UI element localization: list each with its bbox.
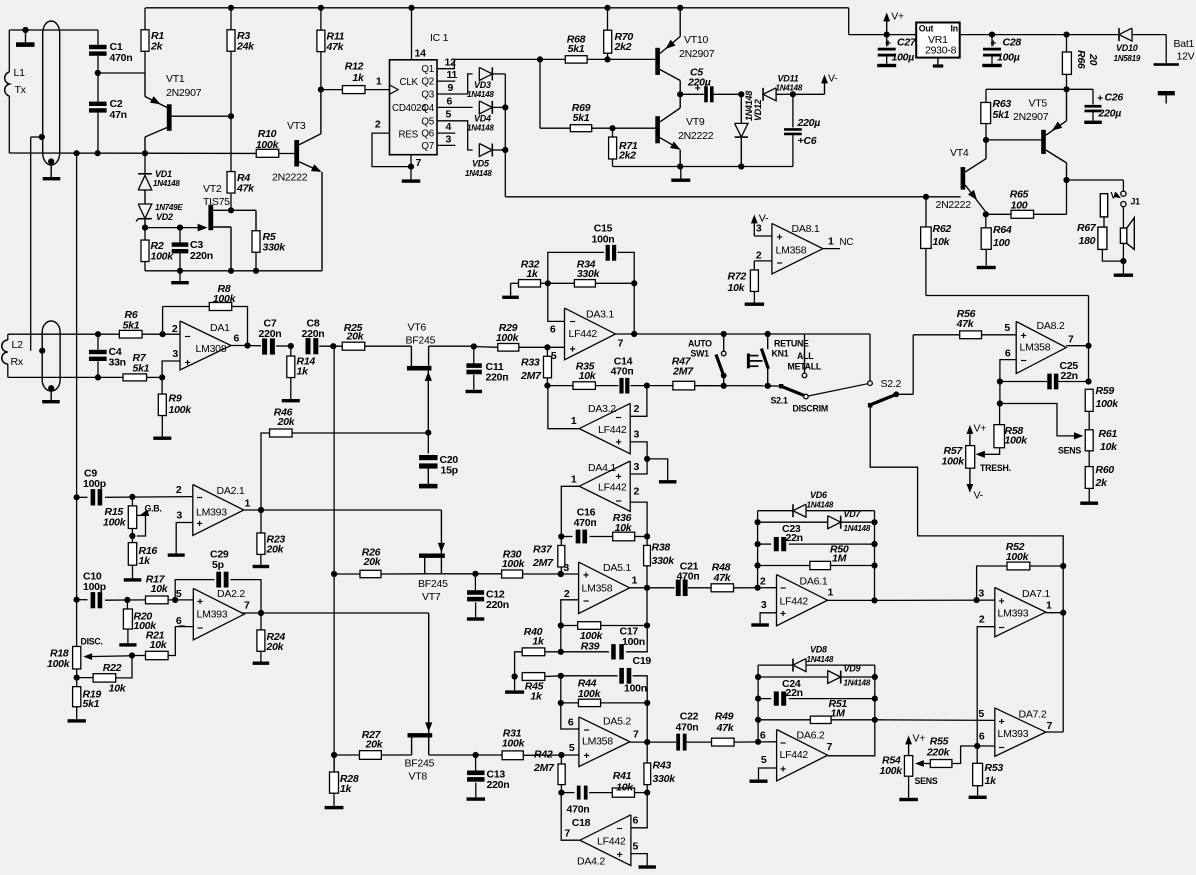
svg-text:2: 2 [760, 576, 766, 588]
svg-text:R42: R42 [534, 749, 553, 761]
wire [144, 51, 146, 73]
svg-text:NC: NC [840, 237, 854, 248]
wire [793, 93, 825, 95]
wire [97, 113, 99, 153]
wire pin6 [561, 703, 579, 729]
svg-text:+: + [999, 716, 1005, 728]
resistor R43 [644, 763, 651, 785]
svg-text:S2.1: S2.1 [771, 396, 788, 406]
capacitor C7 [262, 338, 267, 354]
wire bus x334 [333, 346, 335, 772]
wire [647, 587, 675, 589]
wire [647, 741, 676, 743]
wire [1046, 731, 1063, 733]
svg-text:R60: R60 [1096, 464, 1115, 476]
svg-text:Out: Out [919, 24, 934, 34]
V+ symbol R54 [908, 740, 910, 756]
capacitor C23 [774, 537, 779, 551]
op-amp DA3.1 [565, 308, 616, 360]
V- symbol DA8.1 [753, 217, 755, 225]
wire [365, 345, 412, 347]
wire [680, 93, 704, 95]
svg-text:DA8.2: DA8.2 [1037, 320, 1065, 332]
svg-text:5: 5 [176, 588, 182, 600]
wire osc ground rail [145, 270, 322, 272]
svg-text:5k1: 5k1 [568, 43, 585, 55]
wire [1122, 180, 1124, 191]
wire [986, 139, 1041, 141]
wire pin1 [561, 486, 579, 536]
wire [758, 510, 793, 512]
terminal bar C20 [427, 467, 429, 484]
wire [230, 51, 232, 171]
svg-text:SENS: SENS [915, 776, 938, 786]
resistor R35 [573, 382, 595, 390]
resistor R52 [1007, 562, 1030, 570]
svg-text:LM358: LM358 [582, 736, 613, 748]
wire [1066, 74, 1068, 89]
wire [145, 227, 204, 229]
V- symbol R57 [969, 468, 971, 489]
wire [548, 282, 575, 284]
junction R39 right [644, 622, 650, 628]
resistor R26 [360, 570, 381, 577]
capacitor C11 [466, 363, 481, 368]
wire [758, 698, 771, 700]
svg-text:2k: 2k [150, 41, 164, 53]
svg-text:2: 2 [564, 588, 570, 600]
potentiometer R61 [1085, 430, 1093, 451]
wire [519, 346, 565, 348]
voltage regulator VR1 2930-8 [916, 23, 960, 58]
junction shield Rx [39, 348, 45, 354]
svg-text:220k: 220k [926, 747, 951, 759]
svg-text:Q7: Q7 [421, 141, 434, 152]
wire [999, 404, 1001, 425]
wire [646, 537, 648, 546]
junction DA5.2 out [644, 739, 650, 745]
svg-text:VT9: VT9 [686, 116, 705, 128]
svg-text:+: + [990, 37, 996, 49]
svg-text:5k1: 5k1 [133, 363, 150, 375]
wire R62 to DA8.2 out [925, 248, 927, 295]
resistor R68 [565, 56, 587, 63]
svg-text:2N2907: 2N2907 [679, 48, 715, 60]
svg-text:+: + [780, 764, 786, 776]
wire net2 right bus [874, 665, 876, 756]
wire [792, 135, 794, 167]
wire [1000, 381, 1047, 383]
wire [982, 334, 1017, 336]
wire [1122, 243, 1124, 261]
wire pin6 [548, 283, 565, 321]
svg-text:47k: 47k [713, 572, 732, 584]
svg-text:7: 7 [633, 729, 639, 741]
ground R53 [977, 786, 979, 796]
svg-text:180: 180 [1079, 235, 1096, 247]
svg-text:1N4148: 1N4148 [153, 179, 180, 188]
ground R45 [514, 677, 516, 691]
capacitor C21 [676, 580, 681, 597]
wire pin2 [630, 502, 647, 536]
junction DA7 outs [1060, 610, 1066, 616]
resistor R17 [146, 596, 169, 604]
svg-text:−: − [777, 258, 783, 270]
diode VD4 [479, 101, 492, 114]
svg-text:Bat1: Bat1 [1174, 38, 1195, 50]
svg-text:5: 5 [978, 708, 984, 720]
svg-text:TRESH.: TRESH. [980, 463, 1011, 473]
svg-text:5: 5 [1004, 322, 1010, 334]
junction [95, 331, 101, 337]
ground R64 [985, 250, 987, 266]
svg-text:TIS75: TIS75 [203, 196, 230, 208]
svg-text:Q1: Q1 [421, 64, 434, 75]
wire [1066, 35, 1068, 52]
svg-text:DA5.2: DA5.2 [603, 716, 631, 728]
svg-text:1N4148: 1N4148 [467, 90, 494, 99]
junction R33/R35 [544, 383, 550, 389]
wire DA2.1 out to VT7 [261, 509, 441, 511]
op-amp DA8.1 [772, 223, 823, 274]
resistor R11 [317, 30, 325, 52]
svg-text:15p: 15p [441, 465, 458, 477]
svg-text:VD5: VD5 [472, 159, 490, 169]
pushbutton KN1 RETUNE [767, 334, 769, 349]
svg-text:3: 3 [563, 562, 569, 574]
wire [587, 58, 655, 60]
svg-text:L2: L2 [12, 339, 24, 351]
junction DA6.1 out [871, 597, 877, 603]
wire [646, 703, 648, 742]
svg-text:22n: 22n [786, 532, 803, 544]
wire [132, 655, 146, 657]
junction SW1 bottom [721, 383, 727, 389]
wire [97, 361, 99, 377]
svg-text:VT3: VT3 [287, 120, 306, 132]
wire shield link [30, 137, 32, 351]
wire [162, 361, 180, 377]
svg-text:LM393: LM393 [998, 728, 1029, 740]
svg-text:100n: 100n [624, 683, 647, 695]
svg-text:470п: 470п [611, 366, 634, 378]
wire DA3.1 out to switches [634, 333, 870, 335]
wire [633, 676, 648, 703]
wire [595, 282, 634, 284]
potentiometer R15 [128, 506, 136, 529]
svg-text:1: 1 [571, 474, 577, 486]
junction [142, 150, 148, 156]
svg-text:100k: 100k [47, 658, 71, 670]
svg-text:BF245: BF245 [418, 578, 448, 590]
wire left bus [76, 153, 78, 497]
svg-text:LM393: LM393 [196, 507, 227, 519]
svg-text:IC 1: IC 1 [430, 32, 449, 44]
resistor R7 [123, 374, 147, 381]
svg-text:R67: R67 [1077, 222, 1097, 234]
wire to DA3.1 out [633, 283, 635, 334]
wire [541, 282, 548, 284]
wire [105, 496, 193, 499]
wire [758, 521, 828, 523]
wire [734, 741, 777, 743]
svg-text:In: In [951, 24, 958, 34]
ground DA2.1 [168, 553, 185, 556]
svg-text:LM393: LM393 [998, 608, 1029, 620]
resistor R49 [712, 738, 735, 746]
svg-text:KN1: KN1 [772, 349, 789, 359]
ground R19 [76, 707, 78, 719]
svg-text:LM393: LM393 [197, 609, 228, 621]
wire [688, 587, 711, 589]
wire [334, 754, 359, 756]
junction DA6.1 pin2 [755, 585, 761, 591]
resistor R10 [256, 149, 279, 157]
svg-text:1N4148: 1N4148 [465, 169, 492, 178]
wire [540, 58, 565, 60]
ground C27 [886, 56, 888, 64]
junction R58/SENS [997, 400, 1003, 406]
svg-text:+: + [197, 518, 203, 530]
wire [76, 678, 78, 687]
wire [1088, 296, 1090, 346]
wire [1122, 207, 1124, 228]
wire to R61 wiper [1000, 404, 1080, 436]
ground DA6.2 [750, 780, 768, 783]
wire [260, 613, 262, 630]
resistor R25 [342, 342, 365, 350]
wire [758, 664, 793, 666]
resistor R72 [750, 270, 758, 292]
wire [333, 755, 335, 772]
svg-text:1N5819: 1N5819 [1114, 54, 1141, 63]
wire C15 loop [548, 252, 604, 283]
capacitor C1 [89, 45, 107, 49]
junction [74, 150, 80, 156]
V+ symbol R57 [969, 429, 971, 446]
wire [630, 385, 673, 387]
wire [105, 599, 146, 601]
wire [76, 646, 78, 648]
wire [561, 625, 578, 627]
svg-text:VD10: VD10 [1116, 43, 1138, 53]
junction [755, 519, 761, 525]
svg-text:VD11: VD11 [778, 74, 799, 84]
svg-text:C26: C26 [1105, 92, 1124, 104]
wire [1046, 612, 1063, 614]
svg-text:+C6: +C6 [798, 135, 817, 147]
junction pin2/pin6/R53/R55 [974, 743, 980, 749]
wire [647, 459, 668, 480]
junction R44 left [558, 700, 564, 706]
diode VD1 [138, 173, 152, 175]
junction DA1 out [244, 342, 250, 348]
wire VT9 emitter rail [613, 166, 794, 168]
svg-text:VT4: VT4 [950, 147, 969, 159]
wire [952, 746, 977, 764]
svg-text:5k1: 5k1 [993, 109, 1010, 121]
wire pin3 ground [760, 613, 776, 624]
svg-text:R59: R59 [1096, 385, 1115, 397]
svg-text:+: + [584, 750, 590, 762]
capacitor C13 [467, 771, 485, 776]
wire [76, 669, 78, 678]
wire [646, 742, 648, 763]
junction KN1 top [765, 331, 771, 337]
svg-text:2N2222: 2N2222 [272, 172, 308, 184]
wire [754, 260, 772, 262]
resistor R12 [342, 86, 365, 94]
svg-text:+: + [999, 596, 1005, 608]
svg-text:LF442: LF442 [780, 749, 809, 761]
wire NC [823, 248, 840, 250]
svg-text:−: − [1021, 355, 1027, 367]
switch S2.2 [868, 403, 873, 408]
op-amp DA7.1 [995, 588, 1046, 637]
junction R45/ground [511, 673, 517, 679]
potentiometer R58 [994, 425, 1005, 448]
junction [1063, 31, 1069, 37]
junction R15/R16 [129, 533, 135, 539]
ground R14 [290, 378, 292, 399]
wire [595, 385, 618, 387]
junction R42/pin5 [558, 752, 564, 758]
wire L2 bottom [8, 376, 98, 378]
ground R72 [753, 291, 755, 302]
svg-text:3: 3 [176, 510, 182, 522]
svg-text:R43: R43 [653, 760, 672, 772]
svg-text:METALL: METALL [788, 362, 822, 372]
svg-text:VT2: VT2 [203, 183, 222, 195]
svg-text:C27: C27 [897, 36, 917, 48]
capacitor C16 [576, 530, 581, 544]
switch S2.1 [779, 384, 783, 388]
svg-text:SW1: SW1 [691, 349, 710, 359]
resistor R29 [498, 344, 519, 352]
junction DA6.2 pin6 [755, 739, 761, 745]
resistor R38 [644, 545, 651, 565]
svg-text:330k: 330k [577, 268, 601, 280]
wire [849, 34, 887, 36]
resistor R44 [578, 699, 600, 706]
junction [989, 31, 995, 37]
wire [97, 334, 99, 350]
svg-text:1N4148: 1N4148 [467, 124, 494, 133]
svg-text:5: 5 [446, 109, 452, 121]
junction [755, 541, 761, 547]
wire [1088, 451, 1090, 467]
svg-text:12V: 12V [1177, 51, 1195, 63]
svg-text:DA6.1: DA6.1 [800, 576, 828, 588]
svg-text:R72: R72 [728, 271, 747, 283]
ground C13 [475, 783, 477, 798]
capacitor C9 [91, 489, 96, 505]
junction [677, 5, 683, 11]
svg-text:22n: 22n [1061, 370, 1078, 382]
svg-text:330k: 330k [652, 555, 676, 567]
svg-text:R49: R49 [715, 711, 734, 723]
wire [758, 565, 810, 567]
svg-text:1k: 1k [530, 691, 543, 703]
svg-text:L1: L1 [14, 67, 26, 79]
diode VD8 [793, 659, 806, 672]
svg-text:220n: 220n [486, 599, 509, 611]
wire [1030, 565, 1063, 567]
svg-text:6: 6 [979, 731, 985, 743]
wire [560, 537, 562, 546]
V- symbol [824, 80, 826, 94]
svg-text:LF442: LF442 [597, 836, 626, 848]
wire [429, 345, 474, 347]
wire [144, 153, 146, 173]
wire [977, 745, 995, 747]
svg-text:R39: R39 [581, 641, 600, 653]
capacitor C25 [1047, 374, 1052, 390]
wire [758, 676, 828, 678]
resistor R50 [810, 561, 831, 569]
potentiometer R18 [73, 646, 81, 669]
junction R44 right [644, 700, 650, 706]
wire [1088, 346, 1090, 382]
wire [561, 675, 618, 677]
wire [144, 228, 146, 241]
svg-text:DA6.2: DA6.2 [797, 730, 825, 742]
wire [560, 676, 562, 703]
wire [511, 282, 519, 284]
svg-text:SENS: SENS [1058, 446, 1081, 456]
svg-text:100k: 100k [942, 456, 966, 468]
svg-text:V-: V- [974, 490, 984, 502]
svg-text:6: 6 [176, 615, 182, 627]
diode VD6 [793, 504, 806, 517]
junction [755, 696, 761, 702]
wire Q6 stub [437, 132, 455, 134]
svg-text:R64: R64 [993, 224, 1012, 236]
junction R36 right [644, 533, 650, 539]
diode VD10 [1119, 28, 1132, 41]
svg-text:VD12: VD12 [753, 99, 763, 121]
svg-text:LM358: LM358 [1020, 342, 1051, 354]
junction [331, 571, 337, 577]
svg-text:14: 14 [415, 48, 427, 60]
junction [872, 674, 878, 680]
wire [319, 345, 342, 347]
wire [147, 376, 163, 378]
wiper R15 [137, 515, 146, 536]
svg-text:2N2907: 2N2907 [1013, 111, 1049, 123]
wire [768, 385, 780, 387]
wire VT5 emitter rail [986, 88, 1093, 90]
resistor R46 [270, 429, 293, 437]
junction DA8.2 out [1085, 343, 1091, 349]
shielded cable Tx oval [43, 21, 60, 165]
capacitor C28 (+) [983, 48, 1001, 51]
transistor VT6 BF245 [410, 346, 412, 366]
wire [320, 7, 322, 30]
transistor VT9 [655, 116, 660, 143]
svg-text:2M7: 2M7 [520, 370, 542, 382]
wire R58 to R57 wiper [979, 448, 1000, 455]
svg-text:10k: 10k [150, 639, 168, 651]
wire [429, 754, 502, 756]
junction DA3.2/DA4.1 [644, 456, 650, 462]
svg-text:−: − [999, 742, 1005, 754]
junction C13 [473, 752, 479, 758]
svg-text:Q6: Q6 [421, 129, 434, 140]
svg-text:220µ: 220µ [797, 117, 821, 129]
capacitor C8 [306, 338, 311, 354]
svg-text:+: + [1021, 330, 1027, 342]
